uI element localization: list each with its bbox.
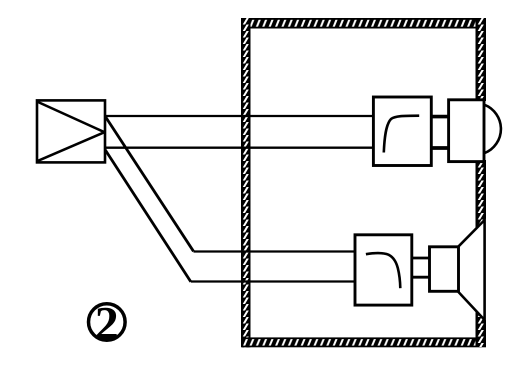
svg-text:2: 2 [95,298,119,351]
